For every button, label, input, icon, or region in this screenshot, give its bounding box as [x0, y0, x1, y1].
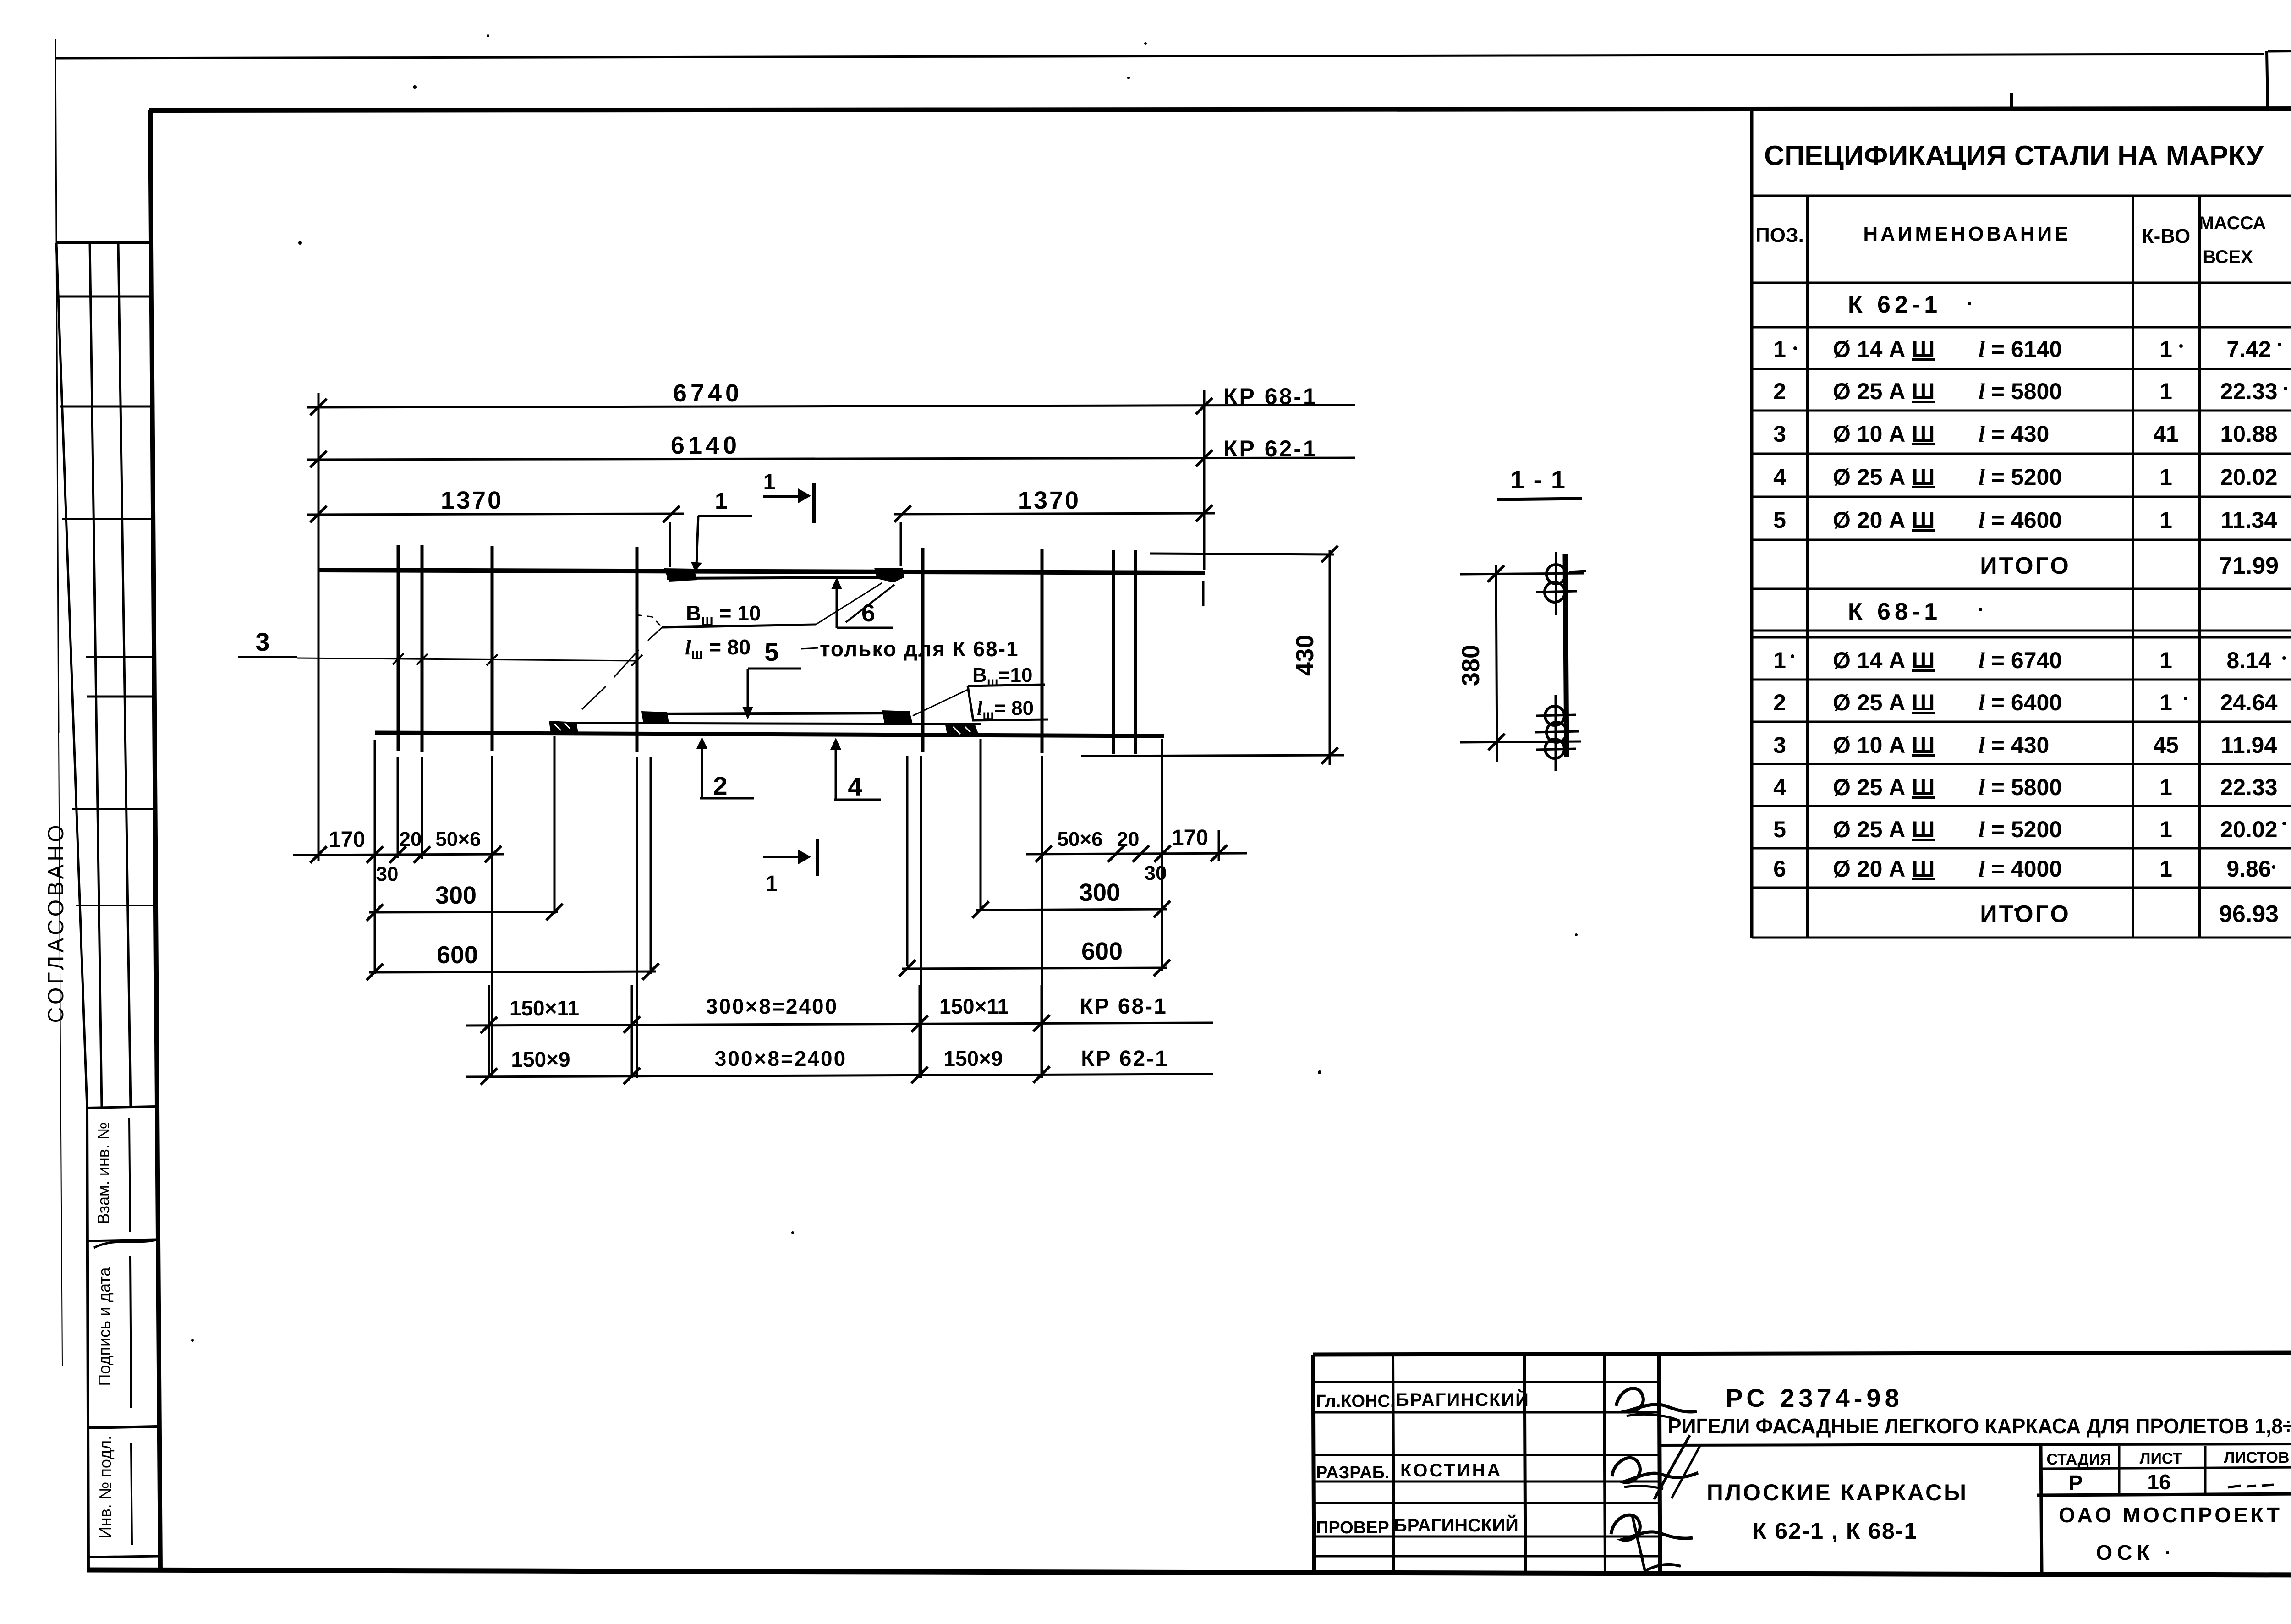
- svg-text:Ø 25 А Ш: Ø 25 А Ш: [1833, 464, 1935, 490]
- stage table СТАДИЯ ЛИСТ ЛИСТОВ: [2037, 1446, 2291, 1572]
- svg-text:1: 1: [715, 488, 728, 514]
- weld note Вш=10 ℓш=80 right: [913, 664, 1048, 723]
- svg-text:Взам. инв. №: Взам. инв. №: [94, 1122, 113, 1224]
- extension line middle-plate-left-end: [650, 757, 652, 974]
- extension line outer-170-right: [1218, 830, 1220, 861]
- svg-text:1: 1: [2159, 507, 2172, 533]
- signature 3: [1611, 1515, 1693, 1571]
- svg-text:5: 5: [1773, 817, 1786, 842]
- svg-text:150×11: 150×11: [510, 996, 579, 1020]
- title block verticals: [1393, 1354, 1660, 1573]
- svg-text:380: 380: [1457, 645, 1485, 686]
- svg-text:1370: 1370: [441, 487, 503, 514]
- svg-text:Ø 25 А Ш: Ø 25 А Ш: [1833, 690, 1935, 715]
- org name ОАО МОСПРОЕКТ: [2059, 1503, 2282, 1527]
- svg-text:50×6: 50×6: [435, 828, 481, 850]
- svg-text:l = 5200: l = 5200: [1979, 817, 2062, 842]
- section 1-1 top bar group: [1536, 552, 1586, 615]
- dim row 600 left: [367, 941, 659, 980]
- svg-text:БРАГИНСКИЙ: БРАГИНСКИЙ: [1396, 1389, 1529, 1410]
- svg-text:96.93: 96.93: [2219, 901, 2279, 927]
- svg-text:4: 4: [1773, 464, 1786, 490]
- table section header K 62-1: [1848, 291, 1941, 318]
- middle plate left weld: [641, 711, 669, 724]
- stirrup pos 3 #1: [397, 545, 400, 751]
- svg-text:КР 62-1: КР 62-1: [1081, 1047, 1169, 1071]
- svg-text:4: 4: [848, 772, 862, 801]
- top chord bar pos 1: [318, 570, 1205, 573]
- svg-text:ОСК ·: ОСК ·: [2096, 1541, 2176, 1564]
- stirrup pos 3 #2: [421, 545, 424, 752]
- svg-text:30: 30: [1145, 862, 1167, 884]
- scan speckles: [191, 34, 1948, 1342]
- svg-text:2: 2: [713, 771, 727, 800]
- title block outer box: [1313, 1353, 2291, 1573]
- dim line 6140 with КР 62-1: [307, 432, 1355, 467]
- stirrup pos 3 #6: [1041, 549, 1044, 753]
- svg-text:41: 41: [2153, 421, 2179, 447]
- svg-text:150×9: 150×9: [511, 1048, 570, 1071]
- table row K62-1 pos 5: [1773, 507, 2277, 533]
- svg-text:ИТОГО: ИТОГО: [1980, 901, 2071, 927]
- table row K62-1 pos 3: [1773, 421, 2277, 447]
- svg-text:К 62-1 , К 68-1: К 62-1 , К 68-1: [1753, 1518, 1918, 1544]
- table row ИТОГО 71.99: [1980, 553, 2279, 579]
- svg-text:РС 2374-98: РС 2374-98: [1726, 1383, 1903, 1412]
- table row K68-1 pos 4: [1773, 774, 2277, 800]
- pos 4 leader: [830, 738, 881, 801]
- svg-text:20: 20: [1117, 828, 1140, 850]
- svg-text:l = 5800: l = 5800: [1979, 774, 2062, 800]
- table scan dots: [1791, 302, 2287, 911]
- table row K68-1 pos 5: [1773, 817, 2277, 842]
- svg-text:РАЗРАБ.: РАЗРАБ.: [1316, 1463, 1390, 1482]
- specification table grid: [1752, 110, 2291, 938]
- svg-text:Р: Р: [2069, 1471, 2083, 1495]
- sidebar section Подпись и дата: [88, 1240, 156, 1408]
- svg-text:Ø 14 А Ш: Ø 14 А Ш: [1833, 336, 1935, 362]
- dim 380 vertical: [1457, 565, 1584, 762]
- svg-text:РИГЕЛИ ФАСАДНЫЕ ЛЕГКОГО КАРКАС: РИГЕЛИ ФАСАДНЫЕ ЛЕГКОГО КАРКАСА ДЛЯ ПРОЛ…: [1668, 1414, 2291, 1438]
- svg-text:600: 600: [1081, 938, 1123, 965]
- svg-text:КР 62-1: КР 62-1: [1223, 436, 1318, 461]
- stamp row РАЗРАБ. КОСТИНА: [1316, 1460, 1502, 1482]
- extension from 1370 to plate right end: [900, 522, 902, 566]
- svg-text:11.94: 11.94: [2221, 732, 2277, 758]
- extension from 1370 to plate left end: [669, 522, 671, 567]
- extension line stirrup-e: [920, 756, 922, 1078]
- top plate pos 6 underside: [667, 577, 898, 578]
- svg-text:БРАГИНСКИЙ: БРАГИНСКИЙ: [1394, 1514, 1518, 1536]
- svg-text:1: 1: [2159, 856, 2172, 882]
- extension line stirrup-b: [421, 757, 423, 859]
- weld note Вш=10 ℓш=80 left: [582, 583, 882, 709]
- svg-text:К-ВО: К-ВО: [2142, 225, 2190, 247]
- svg-text:КР 68-1: КР 68-1: [1223, 384, 1318, 409]
- svg-text:2: 2: [1773, 690, 1786, 715]
- extension line stirrup-c: [491, 756, 493, 1078]
- svg-text:Гл.КОНС.: Гл.КОНС.: [1316, 1392, 1395, 1411]
- dim row 50x6/20/170/30 right: [1026, 826, 1247, 884]
- dim row 300 left: [367, 882, 563, 921]
- bottom plate right weld: [945, 725, 980, 737]
- bottom chord bar pos 2: [375, 733, 1164, 736]
- svg-text:1: 1: [2159, 647, 2172, 673]
- table row K68-1 pos 2: [1773, 690, 2278, 715]
- svg-text:2: 2: [1773, 379, 1786, 404]
- svg-text:22.33: 22.33: [2220, 379, 2277, 404]
- outer thin paper border left: [55, 39, 62, 1366]
- sidebar signature squiggle: [94, 1240, 156, 1248]
- section cut mark 1 top: [763, 470, 814, 523]
- svg-text:Ø 14 А Ш: Ø 14 А Ш: [1833, 647, 1935, 673]
- signature 2: [1612, 1435, 1701, 1499]
- note только для К 68-1: [801, 637, 1019, 661]
- extension line chord-right-end: [1161, 739, 1163, 971]
- stirrup pos 3 #5: [921, 548, 925, 752]
- left extension vertical: [318, 393, 320, 861]
- extension line between plate rows x=2273: [1041, 985, 1043, 1078]
- title block left rows: [1314, 1382, 1659, 1556]
- dim row 300 right: [972, 879, 1170, 918]
- svg-text:150×9: 150×9: [943, 1047, 1003, 1070]
- svg-text:1: 1: [1773, 336, 1786, 362]
- section 1-1 plate bar: [1565, 554, 1567, 757]
- stirrups leader label 3: [238, 627, 642, 666]
- table row K68-1 pos 6: [1773, 856, 2271, 882]
- bottom plate left weld: [549, 721, 578, 733]
- svg-text:ВСЕХ: ВСЕХ: [2203, 247, 2253, 267]
- svg-text:l = 5200: l = 5200: [1979, 464, 2062, 490]
- svg-text:1: 1: [1773, 647, 1786, 673]
- svg-text:1: 1: [2159, 336, 2172, 362]
- tick mark on top frame edge: [2010, 93, 2013, 111]
- svg-text:ОАО МОСПРОЕКТ: ОАО МОСПРОЕКТ: [2059, 1503, 2282, 1527]
- svg-text:Ø 10 А Ш: Ø 10 А Ш: [1833, 732, 1935, 758]
- svg-text:ПЛОСКИЕ КАРКАСЫ: ПЛОСКИЕ КАРКАСЫ: [1707, 1480, 1968, 1505]
- svg-text:Инв. № подл.: Инв. № подл.: [96, 1436, 115, 1538]
- stirrup pos 3 #8: [1134, 550, 1137, 754]
- specification table headers: [1755, 213, 2266, 267]
- svg-text:Ø 25 А Ш: Ø 25 А Ш: [1833, 774, 1935, 800]
- svg-text:4: 4: [1773, 774, 1786, 800]
- svg-text:l = 6400: l = 6400: [1979, 690, 2062, 715]
- svg-text:1: 1: [2159, 464, 2172, 490]
- svg-text:НАИМЕНОВАНИЕ: НАИМЕНОВАНИЕ: [1863, 223, 2071, 245]
- sidebar section Инв. № подл.: [88, 1426, 159, 1557]
- doc title РИГЕЛИ ФАСАДНЫЕ: [1668, 1414, 2291, 1438]
- sidebar vertical label СОГЛАСОВАНО: [44, 822, 68, 1023]
- dim row 150x11 / 300x8=2400 (КР 68-1): [466, 994, 1213, 1033]
- dim row 170/30/20/50x6 left: [293, 828, 504, 885]
- stamp row ПРОВЕР БРАГИНСКИЙ: [1316, 1514, 1518, 1537]
- section 1-1 bottom bar group: [1535, 695, 1579, 771]
- dim line 1370 right: [894, 487, 1215, 522]
- svg-text:16: 16: [2147, 1470, 2170, 1494]
- middle plate right weld: [882, 710, 913, 724]
- left sidebar stamp column: [56, 243, 157, 1571]
- dim row 600 right: [899, 938, 1170, 977]
- top plate left weld: [664, 568, 697, 582]
- pos 6 leader: [831, 577, 894, 628]
- middle plate bar pos 5: [645, 713, 910, 714]
- svg-text:300: 300: [1079, 879, 1120, 906]
- svg-text:300×8=2400: 300×8=2400: [706, 994, 838, 1018]
- svg-text:Ø 10 А Ш: Ø 10 А Ш: [1833, 421, 1935, 447]
- svg-text:l = 5800: l = 5800: [1979, 379, 2062, 404]
- svg-text:6: 6: [861, 599, 875, 627]
- dim line 6740 with КР 68-1: [307, 379, 1355, 415]
- table row K68-1 pos 3: [1773, 732, 2277, 758]
- outer thin paper border top: [56, 50, 2291, 107]
- svg-text:430: 430: [1291, 635, 1319, 676]
- dim line 1370 left: [307, 487, 684, 522]
- svg-text:МАССА: МАССА: [2199, 213, 2266, 233]
- svg-text:Ø 25 А Ш: Ø 25 А Ш: [1833, 379, 1935, 404]
- svg-text:6140: 6140: [671, 432, 740, 459]
- extension line stirrup-d: [636, 757, 638, 1078]
- doc number РС 2374-98: [1726, 1383, 1903, 1412]
- svg-text:6: 6: [1773, 856, 1786, 882]
- table row K62-1 pos 2: [1773, 379, 2277, 404]
- svg-text:ИТОГО: ИТОГО: [1980, 553, 2071, 579]
- extension line between plate rows x=2007: [919, 985, 921, 1078]
- svg-text:5: 5: [764, 637, 778, 666]
- signature 1: [1616, 1388, 1697, 1421]
- svg-text:Ø 25 А Ш: Ø 25 А Ш: [1833, 817, 1935, 842]
- svg-text:1370: 1370: [1018, 487, 1080, 514]
- sheet name ПЛОСКИЕ КАРКАСЫ: [1707, 1480, 1968, 1544]
- bottom plate line: [554, 723, 981, 724]
- svg-text:71.99: 71.99: [2219, 553, 2279, 579]
- svg-text:К 68-1: К 68-1: [1848, 598, 1941, 625]
- svg-text:lш = 80: lш = 80: [685, 635, 751, 662]
- svg-text:СОГЛАСОВАНО: СОГЛАСОВАНО: [44, 822, 68, 1023]
- svg-text:ЛИСТ: ЛИСТ: [2140, 1450, 2182, 1467]
- svg-text:ПОЗ.: ПОЗ.: [1755, 224, 1804, 247]
- svg-text:30: 30: [376, 863, 399, 885]
- extension line bottom-plate-right-weld: [980, 739, 982, 911]
- svg-text:ПРОВЕР: ПРОВЕР: [1316, 1518, 1389, 1537]
- svg-text:l = 6740: l = 6740: [1979, 647, 2062, 673]
- svg-text:1: 1: [2159, 774, 2172, 800]
- top plate right weld: [874, 568, 904, 582]
- stirrup pos 3 #4: [636, 547, 639, 752]
- svg-text:3: 3: [1773, 732, 1786, 758]
- svg-text:СТАДИЯ: СТАДИЯ: [2046, 1451, 2111, 1468]
- svg-text:l = 430: l = 430: [1979, 421, 2049, 447]
- svg-text:только для К 68-1: только для К 68-1: [820, 637, 1019, 661]
- svg-text:22.33: 22.33: [2220, 774, 2277, 800]
- svg-text:6740: 6740: [673, 379, 743, 407]
- svg-text:l = 4000: l = 4000: [1979, 856, 2062, 882]
- svg-text:24.64: 24.64: [2220, 690, 2277, 715]
- svg-text:К 62-1: К 62-1: [1848, 291, 1941, 318]
- svg-text:11.34: 11.34: [2221, 507, 2277, 533]
- svg-text:3: 3: [255, 627, 269, 656]
- svg-text:5: 5: [1773, 507, 1786, 533]
- extension line stirrup-f: [1041, 756, 1043, 1078]
- svg-text:1: 1: [2159, 379, 2172, 404]
- extension line between plate rows x=1067: [488, 985, 490, 1078]
- stirrup pos 3 #3: [491, 546, 494, 751]
- svg-text:l = 4600: l = 4600: [1979, 507, 2062, 533]
- pos 5 leader: [742, 637, 801, 719]
- svg-text:50×6: 50×6: [1057, 828, 1102, 850]
- svg-text:ЛИСТОВ: ЛИСТОВ: [2224, 1449, 2290, 1466]
- svg-text:20.02: 20.02: [2220, 464, 2277, 490]
- stamp row Гл.КОНС. БРАГИНСКИЙ: [1316, 1389, 1529, 1411]
- svg-text:1: 1: [2159, 817, 2172, 842]
- svg-text:Ø 20 А Ш: Ø 20 А Ш: [1833, 507, 1935, 533]
- org dept ОСК: [2096, 1541, 2176, 1564]
- svg-text:20: 20: [400, 828, 422, 850]
- extension line middle-plate-right-end: [906, 756, 909, 966]
- table row K68-1 pos 1: [1773, 647, 2271, 673]
- extension line between plate rows x=1379: [631, 985, 633, 1078]
- svg-text:1 - 1: 1 - 1: [1510, 465, 1566, 494]
- extension line bottom-plate-left-weld: [554, 736, 556, 914]
- svg-text:СПЕЦИФИКАЦИЯ СТАЛИ НА МАРКУ: СПЕЦИФИКАЦИЯ СТАЛИ НА МАРКУ: [1764, 140, 2264, 171]
- svg-text:8.14: 8.14: [2226, 647, 2271, 673]
- svg-text:Подпись и дата: Подпись и дата: [95, 1267, 114, 1386]
- svg-text:l = 6140: l = 6140: [1979, 336, 2062, 362]
- svg-text:20.02: 20.02: [2220, 817, 2277, 842]
- svg-text:Ø 20 А Ш: Ø 20 А Ш: [1833, 856, 1935, 882]
- sidebar section Взам. инв. №: [87, 1107, 155, 1232]
- svg-text:Вш = 10: Вш = 10: [686, 601, 761, 628]
- svg-text:7.42: 7.42: [2226, 336, 2271, 362]
- svg-text:300: 300: [435, 882, 477, 909]
- table row K62-1 pos 1: [1773, 336, 2271, 362]
- svg-text:l = 430: l = 430: [1979, 732, 2049, 758]
- stirrup pos 3 #7: [1112, 550, 1115, 754]
- svg-text:1: 1: [763, 470, 776, 494]
- right extension vertical: [1203, 390, 1204, 606]
- pos 2 leader: [696, 737, 754, 800]
- svg-text:45: 45: [2153, 732, 2179, 758]
- title block divider: [1659, 1444, 2291, 1445]
- svg-text:170: 170: [1172, 826, 1208, 850]
- svg-text:170: 170: [329, 828, 365, 852]
- section title 1 - 1: [1497, 465, 1582, 499]
- table section header K 68-1: [1848, 598, 1941, 625]
- extension line chord-left-end: [374, 740, 376, 974]
- table row ИТОГО 96.93: [1980, 901, 2279, 927]
- specification table title: [1764, 140, 2264, 171]
- svg-text:9.86: 9.86: [2226, 856, 2271, 882]
- svg-text:КР 68-1: КР 68-1: [1080, 994, 1167, 1019]
- svg-text:КОСТИНА: КОСТИНА: [1400, 1460, 1502, 1481]
- dim row 150x9 / 300x8=2400 (КР 62-1): [466, 1047, 1213, 1085]
- pos 1 leader: [691, 488, 752, 572]
- svg-text:3: 3: [1773, 421, 1786, 447]
- table row K62-1 pos 4: [1773, 464, 2277, 490]
- svg-text:10.88: 10.88: [2220, 421, 2277, 447]
- svg-text:1: 1: [2159, 690, 2172, 715]
- extension line stirrup-a: [397, 757, 399, 858]
- section cut mark 1 bottom: [763, 839, 817, 896]
- svg-text:150×11: 150×11: [939, 994, 1009, 1018]
- svg-text:600: 600: [437, 941, 478, 969]
- dim 430 vertical right: [1081, 546, 1344, 765]
- svg-text:1: 1: [766, 872, 778, 896]
- svg-text:300×8=2400: 300×8=2400: [715, 1047, 847, 1070]
